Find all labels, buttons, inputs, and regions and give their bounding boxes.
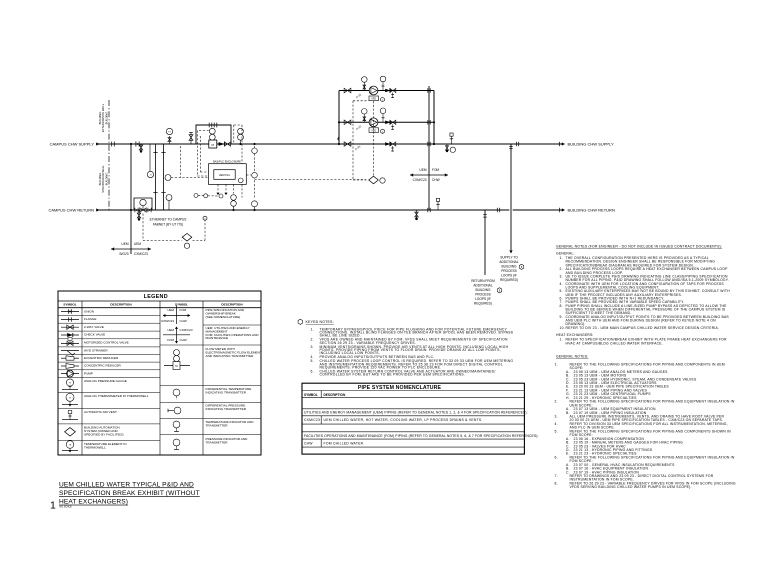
legend symbol: analog thermometer in thermowell [62, 404, 78, 406]
circle inside enclosure [238, 178, 243, 183]
drain below return x=416 [416, 210, 418, 218]
svg-text:CAMPUS CHW SUPPLY: CAMPUS CHW SUPPLY [50, 142, 95, 147]
svg-text:SYMBOL: SYMBOL [304, 393, 318, 397]
svg-text:INDICATING TRANSMITTER: INDICATING TRANSMITTER [206, 390, 247, 394]
svg-text:CHW: CHW [432, 178, 440, 182]
svg-text:P-01: P-01 [355, 92, 362, 99]
air vent on supply x=451.5 [451, 136, 453, 144]
svg-text:UEM: UEM [167, 328, 174, 332]
keyed notes text [311, 327, 514, 376]
svg-text:8.: 8. [555, 481, 558, 485]
legend right: pressure indicator and transmitter [173, 439, 180, 446]
wire: pump branch 2 [339, 121, 434, 123]
dashed VFD signal drop to BAS diamond [353, 100, 369, 102]
svg-text:BUILDING: BUILDING [104, 173, 108, 186]
svg-text:REFER TO THE FOLLOWING SPECIFI: REFER TO THE FOLLOWING SPECIFICATIONS FO… [570, 400, 735, 404]
pressure gauge PI above supply x=169 [169, 136, 171, 144]
svg-text:CHW: CHW [180, 338, 187, 342]
drain below branch P-01 [392, 93, 394, 99]
node: spec break cross campus (UEM/UEM B/G23/CXM-C23) [111, 248, 151, 250]
dashed drop from supply x=180.5 [180, 146, 182, 178]
svg-text:5.: 5. [311, 359, 314, 363]
wire: pump branch 1 [339, 90, 434, 92]
isolation valve for P-01 [390, 88, 396, 92]
svg-text:GENERAL NOTES:: GENERAL NOTES: [556, 354, 588, 358]
valve on pump branch P-02 [344, 120, 351, 125]
pipe break squiggle on pump suction header [338, 135, 339, 140]
svg-text:B/G23: B/G23 [119, 252, 128, 256]
svg-text:ANALOG PRESSURE GAUGE: ANALOG PRESSURE GAUGE [84, 379, 127, 383]
valve on pump bypass (supply line) [344, 142, 351, 147]
svg-text:PUMP: PUMP [84, 371, 93, 375]
svg-text:AND INDICATING TRANSMITTER: AND INDICATING TRANSMITTER [206, 354, 255, 358]
thermometer below supply x=452.6 [450, 147, 455, 152]
svg-text:3.: 3. [311, 345, 314, 349]
svg-text:BAS/PLC ENCLOSURE: BAS/PLC ENCLOSURE [213, 159, 241, 163]
wire: UEM/FOM ownership break vertical line [428, 86, 430, 210]
svg-text:HEAT EXCHANGERS:: HEAT EXCHANGERS: [556, 333, 594, 337]
svg-text:BUILDING CHW SUPPLY: BUILDING CHW SUPPLY [568, 142, 614, 147]
svg-text:FABNET (BY UT ITS): FABNET (BY UT ITS) [153, 223, 183, 227]
wire: pump suction header [338, 91, 340, 145]
svg-text:SYMBOL: SYMBOL [175, 303, 188, 307]
svg-text:REFER TO THE FOLLOWING SPECIFI: REFER TO THE FOLLOWING SPECIFICATIONS FO… [570, 429, 732, 433]
svg-text:REQUIRED): REQUIRED) [500, 278, 518, 282]
svg-text:2-WAY VALVE: 2-WAY VALVE [84, 325, 104, 329]
drain below branch P-02 [392, 124, 394, 130]
svg-text:3.: 3. [555, 415, 558, 419]
node: wall label upper [98, 103, 108, 132]
legend table frame [58, 291, 261, 455]
svg-text:FOM: FOM [432, 168, 439, 172]
svg-text:PROCESS: PROCESS [475, 293, 491, 297]
svg-text:BUILDING: BUILDING [104, 112, 108, 125]
pump P-01 [369, 86, 378, 95]
svg-text:AUTOMATIC AIR VENT: AUTOMATIC AIR VENT [84, 410, 117, 414]
svg-text:UNION: UNION [84, 309, 94, 313]
svg-text:1.: 1. [311, 327, 314, 331]
TIT above return x=254 [252, 201, 258, 207]
svg-text:AND UEM PLC WITH UEM AND FOM D: AND UEM PLC WITH UEM AND FOM DURING DESI… [566, 318, 717, 322]
isolation valve for P-02 [390, 120, 396, 124]
check valve for P-01 [385, 89, 390, 93]
air vent on return x=438 [437, 202, 439, 211]
svg-text:UEM CHILLED WATER TYPICAL P&ID: UEM CHILLED WATER TYPICAL P&ID AND [59, 481, 194, 488]
wire: dashed signal run to pump BAS diamond [255, 179, 367, 181]
VFD box for P-02 (keyed note 2) [369, 128, 379, 133]
node: supply tap label [499, 256, 518, 283]
flange pair at wall crossing [111, 142, 113, 147]
general notes block 2 [555, 354, 736, 489]
svg-text:DESCRIPTION: DESCRIPTION [221, 303, 243, 307]
svg-text:CHECK VALVE: CHECK VALVE [84, 333, 105, 337]
legend symbol: 2-way valve [61, 326, 79, 328]
svg-text:2.: 2. [560, 267, 563, 271]
svg-text:VFDS SERVING BUILDING CHILLED: VFDS SERVING BUILDING CHILLED WATER PUMP… [570, 485, 692, 489]
DPIT circle with dashed signal (left of PLC) [165, 175, 171, 181]
svg-text:LEGEND: LEGEND [144, 294, 168, 300]
svg-text:INDICATING TRANSMITTER: INDICATING TRANSMITTER [206, 407, 247, 411]
svg-text:DESCRIPTION: DESCRIPTION [324, 393, 346, 397]
pipe system nomenclature table [302, 383, 524, 454]
svg-text:CXM/C23: CXM/C23 [161, 319, 174, 323]
drawing title [59, 481, 200, 505]
svg-text:UEM: UEM [134, 242, 141, 246]
discharge gauge for P-01 [382, 82, 384, 91]
wire: bypass spool loop over flow meter (keyed note 1) [196, 125, 231, 144]
svg-text:BUILDING CHW RETURN: BUILDING CHW RETURN [568, 208, 615, 213]
control valve on return [140, 208, 146, 212]
svg-text:MOTORIZED CONTROL VALVE: MOTORIZED CONTROL VALVE [84, 340, 129, 344]
check valve on bypass [385, 142, 390, 146]
svg-text:CXM/C23: CXM/C23 [304, 418, 320, 422]
legend symbol: check valve [61, 334, 79, 336]
svg-text:UEM: UEM [121, 242, 128, 246]
pump P-02 [369, 118, 378, 127]
svg-text:FLANGE: FLANGE [84, 317, 96, 321]
svg-text:CAMPUS CHW RETURN: CAMPUS CHW RETURN [48, 208, 94, 213]
svg-text:UEM CHILLED WATER, HOT WATER,: UEM CHILLED WATER, HOT WATER, COOLING WA… [324, 418, 483, 422]
svg-text:CONCENTRIC REDUCER: CONCENTRIC REDUCER [84, 364, 122, 368]
svg-text:THERMOWELL: THERMOWELL [84, 445, 106, 449]
svg-text:HVAC AT CAMPUS/BLDG CHILLED WA: HVAC AT CAMPUS/BLDG CHILLED WATER INTERF… [566, 341, 663, 345]
svg-text:ADDITIONAL: ADDITIONAL [473, 284, 492, 288]
svg-text:6.: 6. [311, 369, 314, 373]
valve on bypass [390, 142, 396, 146]
flow indicating transmitter circles FIT [209, 128, 215, 134]
svg-text:BUILDING: BUILDING [501, 265, 517, 269]
svg-text:1.: 1. [560, 338, 563, 342]
legend right: diff temp transmitter [173, 389, 180, 396]
svg-text:REFER TO THE FOLLOWING SPECIFI: REFER TO THE FOLLOWING SPECIFICATIONS FO… [570, 455, 735, 459]
svg-text:SYMBOL: SYMBOL [63, 303, 76, 307]
svg-text:ETHERNET TO CAMPUS: ETHERNET TO CAMPUS [150, 218, 187, 222]
wire: campus CHW return main pipe [96, 209, 563, 211]
drain below supply after bypass valve [392, 146, 394, 152]
PLC enclosure box [209, 164, 247, 185]
svg-text:1.: 1. [555, 362, 558, 366]
svg-text:ANALOG THERMOMETER IN THERMOWE: ANALOG THERMOMETER IN THERMOWELL [84, 394, 149, 398]
dashed signal to FIT [199, 130, 209, 132]
svg-text:ECCENTRIC REDUCER: ECCENTRIC REDUCER [84, 356, 119, 360]
VFD box for P-01 (keyed note 2) [369, 96, 379, 101]
svg-text:KEYED NOTES:: KEYED NOTES: [306, 320, 334, 324]
union U1 on supply [135, 141, 137, 146]
svg-text:VFD: VFD [371, 98, 376, 101]
node: building wall boundary line (dash-dot) [108, 100, 110, 212]
control valve bypass loop on return (FOM valve, keyed note 6) [134, 198, 152, 210]
dashed links below enclosure (power/IO) [217, 184, 219, 192]
svg-text:SUPPLY TO: SUPPLY TO [500, 256, 518, 260]
svg-text:PIPE SYSTEM NOMENCLATURE: PIPE SYSTEM NOMENCLATURE [358, 385, 442, 391]
svg-text:DESCRIPTION: DESCRIPTION [110, 303, 132, 307]
legend right: flow meter symbol [164, 365, 190, 367]
svg-text:CHW: CHW [180, 319, 187, 323]
thermometer TI below supply line [149, 144, 151, 171]
legend symbol: union [61, 311, 79, 313]
suction gauge for P-02 [363, 114, 365, 122]
wire: pump discharge header [433, 91, 435, 145]
valve on pump branch P-01 [344, 88, 351, 93]
svg-text:LOOPS (IF: LOOPS (IF [501, 274, 517, 278]
dashed signal loop over bypass [233, 125, 235, 143]
svg-text:MAINTENANCE: MAINTENANCE [206, 336, 229, 340]
svg-text:2.: 2. [311, 338, 314, 342]
keyed notes header [298, 319, 303, 324]
check valve after flow meter [219, 142, 225, 146]
svg-text:TRANSMITTER: TRANSMITTER [206, 423, 229, 427]
wire: supply tap to additional process loops [509, 208, 512, 211]
legend right: diff pressure transmitter [168, 410, 174, 412]
svg-text:CHW: CHW [304, 441, 313, 445]
svg-text:TRANSMITTER: TRANSMITTER [206, 440, 229, 444]
legend symbol: analog pressure gauge [62, 389, 78, 391]
legend symbol: concentric reducer [61, 365, 66, 367]
svg-text:NO SCALE: NO SCALE [60, 505, 72, 508]
valve after check valve [224, 142, 230, 146]
svg-text:LOOPS (IF: LOOPS (IF [475, 297, 491, 301]
legend symbol: flange [61, 319, 79, 321]
legend symbol: automatic air vent [62, 419, 78, 421]
svg-text:8.: 8. [560, 304, 563, 308]
wire: campus CHW supply main pipe [96, 143, 563, 145]
discharge gauge for P-02 [382, 114, 384, 123]
svg-text:FOM: FOM [180, 308, 187, 312]
legend right: temperature indicator and transmitter [173, 421, 180, 428]
svg-text:CXM/C23: CXM/C23 [413, 178, 427, 182]
svg-text:ADDITIONAL: ADDITIONAL [499, 260, 518, 264]
legend symbol: BAS diamond [65, 428, 76, 436]
svg-text:FOM CHILLED WATER.: FOM CHILLED WATER. [324, 441, 365, 445]
svg-text:1: 1 [50, 500, 56, 512]
DPIT stack above return x=233 [231, 195, 237, 201]
node: return tap label [471, 279, 495, 306]
drain below return x=139 [138, 210, 140, 219]
svg-text:P-03: P-03 [354, 144, 361, 151]
svg-text:4.: 4. [555, 422, 558, 426]
svg-text:6.: 6. [555, 455, 558, 459]
svg-text:RETURN FROM: RETURN FROM [471, 279, 495, 283]
general notes block 1 [556, 252, 730, 346]
svg-text:PROCESS: PROCESS [501, 269, 517, 273]
svg-text:GENERAL NOTES (FOR ENGINEER -: GENERAL NOTES (FOR ENGINEER - DO NOT INC… [556, 244, 722, 248]
wire: return tap from additional process loops [484, 210, 486, 275]
flange pair on bypass spool [208, 123, 210, 128]
svg-text:CONTROLLED BY FOM, BUT ARE TO: CONTROLLED BY FOM, BUT ARE TO BE PROVIDE… [320, 373, 466, 377]
svg-text:P-02: P-02 [355, 124, 362, 131]
svg-text:1.: 1. [560, 256, 563, 260]
svg-text:(SEE NOMENCLATURE): (SEE NOMENCLATURE) [206, 315, 241, 319]
svg-text:5.: 5. [560, 289, 563, 293]
BAS diamond at pumps [369, 176, 379, 184]
svg-text:VFD: VFD [371, 129, 376, 132]
TIT circle above return x=169 [166, 195, 172, 201]
svg-text:7.: 7. [555, 474, 558, 478]
svg-text:FACILITIES OPERATIONS AND MAIN: FACILITIES OPERATIONS AND MAINTENANCE (F… [304, 434, 539, 438]
legend symbol: eccentric reducer [61, 357, 66, 359]
node: wall label lower [98, 165, 108, 193]
svg-text:5.: 5. [555, 429, 558, 433]
vent valve on stem above supply x=191 [190, 133, 192, 145]
wire: DP sensing line 1 supply to return [155, 144, 157, 210]
wire: campus/building spec break vertical line [130, 144, 132, 254]
legend symbol: pump [61, 373, 79, 375]
legend symbol: temperature element in thermowell [62, 450, 78, 452]
svg-text:UEM: UEM [167, 308, 174, 312]
svg-text:UTILITIES AND ENERGY MANAGEMEN: UTILITIES AND ENERGY MANAGEMENT (UEM) PI… [304, 411, 528, 415]
valve actuator circle [140, 199, 146, 205]
suction gauge for P-01 [363, 83, 365, 91]
svg-text:CXM/C23: CXM/C23 [180, 328, 193, 332]
legend symbol: wye strainer [61, 350, 79, 352]
svg-text:REFER TO THE FOLLOWING SPECIFI: REFER TO THE FOLLOWING SPECIFICATIONS FO… [570, 362, 725, 366]
svg-text:M: M [175, 364, 177, 368]
PLC inner box [214, 170, 235, 180]
svg-text:SPECIFICATION BREAK EXHIBIT (W: SPECIFICATION BREAK EXHIBIT (WITHOUT [59, 490, 200, 497]
svg-text:FOM: FOM [167, 338, 174, 342]
wire: DP sensing line 2 supply to return [163, 144, 165, 210]
svg-text:GENERAL:: GENERAL: [556, 252, 575, 256]
svg-text:WYE STRAINER: WYE STRAINER [84, 349, 108, 353]
temperature element below supply with dashed signal [253, 143, 255, 145]
svg-text:REFER TO DIV 23 - UEM MAIN CAM: REFER TO DIV 23 - UEM MAIN CAMPUS CHILLE… [566, 326, 720, 330]
svg-text:4.: 4. [560, 282, 563, 286]
svg-text:REQUIRED): REQUIRED) [474, 302, 492, 306]
drain valve below supply x=141 [140, 144, 142, 151]
svg-text:10.: 10. [560, 326, 565, 330]
BAS diamond below return [182, 233, 192, 241]
circle right of enclosure with dashed link [246, 174, 251, 176]
check valve for P-02 [385, 121, 390, 125]
svg-text:SPECIFIED BY FACILITIES): SPECIFIED BY FACILITIES) [84, 432, 123, 436]
svg-text:BUILDING: BUILDING [475, 288, 491, 292]
ethernet dashed run to BAS [142, 214, 144, 241]
svg-text:9.: 9. [560, 315, 563, 319]
drain below supply x=447 [446, 144, 448, 151]
svg-text:CXM/C23: CXM/C23 [134, 252, 148, 256]
node: spec break cross UEM/FOM [410, 174, 448, 176]
instrument circles right of bypass (PIT/TIT pair) [240, 134, 242, 144]
svg-text:3.: 3. [560, 274, 563, 278]
flow meter FE body on supply line [209, 140, 217, 148]
svg-text:UEM PLC: UEM PLC [219, 173, 231, 177]
legend symbol: motorized control valve [61, 342, 79, 344]
svg-text:UEM: UEM [419, 168, 426, 172]
svg-text:2.: 2. [555, 400, 558, 404]
